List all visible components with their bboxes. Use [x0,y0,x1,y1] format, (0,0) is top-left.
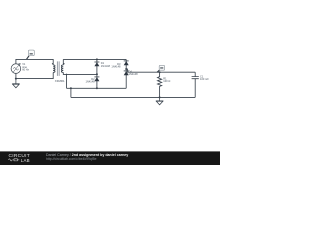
ground (left) [12,79,19,88]
transformer XFMR1 [52,59,67,88]
node left leg bottom dot [96,87,98,89]
label D1 [101,61,111,68]
wire bottom-left to primary bottom [16,73,53,79]
node R1 bottom dot [159,96,161,98]
flag probe (output net) pointer [157,70,159,72]
ground (right) [156,97,163,104]
node secondary bottom T dot [66,74,68,76]
flag probe (input net) box [28,50,34,56]
V1 arrow [13,63,20,72]
diode D2 [94,76,99,78]
diode D3 [124,60,129,62]
wire secondary top to bridge top rail [63,58,126,60]
secondary winding [61,65,63,73]
node right leg output tap dot [125,68,127,70]
bridge right leg wire [125,59,127,88]
capacitor C1 top lead [194,72,196,76]
flag probe (output net) box [159,65,164,70]
svg-text:60 Hz: 60 Hz [22,68,29,72]
svg-text:1N4148: 1N4148 [129,72,139,76]
CircuitLab logo wordmark [9,153,30,163]
label V1 [22,62,29,72]
wire secondary bottom to left leg midpoint [67,73,97,75]
voltage source V1 [11,64,21,74]
bridge left leg wire [96,59,98,88]
resistor R1 [158,72,162,97]
V1 sine symbol [13,68,18,71]
wire bottom rail [71,96,195,98]
flag probe (input net) pointer [27,56,30,60]
label D4 [129,69,139,76]
secondary top lead [62,59,64,65]
bottom caption bar [0,151,220,165]
svg-text:100 Ω: 100 Ω [163,79,170,83]
node V1- junction dot [15,78,17,80]
node R1 top dot [159,71,161,73]
phase dot secondary [63,63,64,64]
wire stub to bottom rail [70,88,72,97]
phase dot primary [52,63,53,64]
primary winding [53,65,55,73]
label D2 [86,77,96,84]
wire top-left V1 to XFMR1 primary [16,59,53,64]
V1 bottom lead [15,73,17,78]
diode D1 [94,61,99,63]
svg-text:LAB: LAB [21,158,30,163]
secondary bottom lead + jog wire down [63,72,66,88]
svg-text:1N4148: 1N4148 [86,79,96,83]
svg-text:100 mF: 100 mF [200,77,209,81]
wire output rail [126,69,195,72]
label R1 [163,77,170,84]
transformer core [57,61,59,76]
svg-text:1N4148: 1N4148 [101,64,111,68]
node stub T dot [70,87,72,89]
capacitor C1 bottom lead [194,79,196,98]
node left leg midpoint dot [96,73,98,75]
node bridge top junction dot [96,58,98,60]
svg-text:1N4148: 1N4148 [111,65,121,69]
svg-text:http://circuitlab.com/c/be4k99: http://circuitlab.com/c/be4k99qf5e [46,157,97,161]
wire bridge bottom [67,87,127,89]
diode D4 [124,70,129,72]
label C1 [200,74,209,81]
svg-text:XFMR1: XFMR1 [55,79,65,83]
CircuitLab logo sine glyph [9,159,20,161]
capacitor C1 plates [192,77,199,79]
label D3 [111,62,121,69]
